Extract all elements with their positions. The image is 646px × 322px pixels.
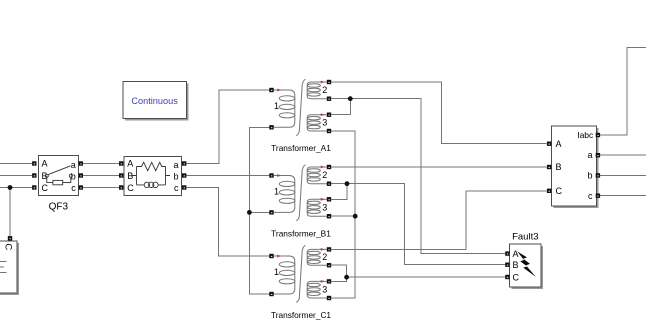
Fault3 lightning bolt (517, 251, 536, 277)
svg-text:1: 1 (274, 267, 279, 277)
svg-text:Transformer_C1: Transformer_C1 (271, 310, 331, 320)
A1 winding 3 polarity arrow (321, 113, 325, 116)
transformer C1 core slash (296, 245, 305, 302)
measurement output port b (596, 173, 600, 177)
C1 winding 3 port - (327, 296, 331, 300)
B1 winding 2 port - (327, 182, 331, 186)
wire RL b to Transformer_B1 primary+ (186, 175, 269, 177)
B1 winding 2 port + (327, 165, 331, 169)
svg-text:2: 2 (322, 85, 327, 95)
RL input port B (119, 173, 123, 177)
wire C1 center tap to Fault3 C (347, 276, 506, 278)
svg-text:a: a (173, 160, 178, 170)
QF3 input port C (32, 185, 36, 189)
svg-text:B: B (556, 162, 562, 172)
C1 primary polarity arrow (277, 255, 281, 258)
svg-text:Iabc: Iabc (577, 130, 594, 140)
A1 winding 2 polarity arrow (321, 81, 325, 84)
svg-text:A: A (127, 159, 133, 169)
wire A1 center tap to Fault3 A (331, 99, 505, 254)
wire RL a to Transformer_A1 primary+ (186, 90, 269, 164)
C1 winding 2 port + (327, 247, 331, 251)
wire A1 winding2+ to measurement A (331, 82, 546, 144)
B1 winding 3 port - (327, 214, 331, 218)
RL output port a (182, 161, 186, 165)
svg-text:b: b (173, 171, 178, 181)
wire primary neutral bus (249, 127, 269, 294)
node B1 center tap (345, 181, 350, 186)
wire B1 winding3- to common bus (331, 215, 355, 217)
A1 primary polarity arrow (277, 89, 281, 92)
wire B1 tap jog to winding3+ (331, 184, 347, 200)
Fault3 port A (505, 251, 509, 255)
C1 winding 2 polarity arrow (321, 248, 325, 251)
wire phase C into QF3 (0, 187, 32, 189)
source symbol line 3 (0, 272, 6, 274)
wire measurement b to right edge (600, 174, 646, 176)
powergui Continuous block (123, 82, 188, 121)
RL output port b (182, 173, 186, 177)
svg-text:Transformer_A1: Transformer_A1 (271, 143, 331, 153)
B1 primary port - (269, 210, 273, 214)
QF3 input port A (32, 161, 36, 165)
transformer C1 secondary winding 3 (307, 281, 327, 298)
wire B1 winding2+ to measurement B (331, 166, 546, 168)
svg-text:a: a (587, 150, 592, 160)
svg-text:c: c (174, 183, 179, 193)
wire B1 center tap to Fault3 B (331, 184, 505, 265)
svg-text:C: C (127, 183, 134, 193)
QF3 output port c (79, 185, 83, 189)
Fault3 port B (505, 263, 509, 267)
node neutral junction (247, 210, 252, 215)
measurement output port Iabc (596, 133, 600, 137)
measurement block body (552, 126, 599, 208)
transformer A1 secondary winding 2 (307, 82, 327, 99)
A1 primary port - (269, 125, 273, 129)
svg-text:C: C (513, 273, 520, 283)
C1 winding 2 port - (327, 263, 331, 267)
wire QF3 b to RL B (83, 175, 119, 177)
RL interior resistor R (132, 162, 170, 185)
transformer A1 primary winding (274, 90, 295, 127)
wire RL c to Transformer_C1 primary+ (186, 188, 269, 257)
fault block Fault3 body (510, 244, 543, 289)
source block (cut off at left edge) (0, 241, 19, 295)
measurement input port B (547, 165, 551, 169)
svg-text:C: C (3, 243, 14, 250)
svg-text:Continuous: Continuous (131, 96, 178, 106)
wire secondary common bus (A1 3- to C1 3-) (331, 131, 355, 298)
transformer B1 secondary winding 2 (307, 167, 327, 184)
wire from node C down to source block (9, 188, 11, 237)
svg-text:2: 2 (322, 252, 327, 262)
QF3 breaker switch symbol (45, 166, 72, 185)
svg-text:C: C (556, 186, 563, 196)
RL input port A (119, 161, 123, 165)
C1 primary port - (269, 292, 273, 296)
transformer A1 secondary winding 3 (307, 115, 327, 131)
svg-text:3: 3 (322, 284, 327, 294)
B1 primary port + (269, 173, 273, 177)
parallel RL branch block body (124, 157, 181, 196)
A1 winding 3 port - (327, 129, 331, 133)
svg-text:3: 3 (322, 202, 327, 212)
A1 winding 2 port - (327, 97, 331, 101)
wire C1 winding2- down to tap (331, 265, 346, 277)
wire A1 tap jog to winding3+ (331, 99, 350, 115)
wire phase A into QF3 (0, 163, 32, 165)
transformer B1 primary winding (274, 176, 295, 213)
wire phase B into QF3 (0, 175, 32, 177)
A1 winding 2 port + (327, 80, 331, 84)
transformer B1 secondary winding 3 (307, 199, 327, 216)
wire neutral to B1 primary- (249, 211, 269, 213)
transformer C1 secondary winding 2 (307, 249, 327, 265)
B1 primary polarity arrow (277, 174, 281, 177)
node C junction (8, 185, 13, 190)
svg-text:A: A (556, 139, 562, 149)
C1 winding 3 port + (327, 279, 331, 283)
wire C1 winding2+ to measurement C (331, 191, 546, 250)
svg-text:A: A (513, 249, 519, 259)
wire QF3 a to RL A (83, 163, 119, 165)
C1 primary port + (269, 254, 273, 258)
source symbol line 2 (0, 266, 4, 268)
measurement output port c (596, 194, 600, 198)
svg-text:C: C (42, 183, 49, 193)
RL input port C (119, 185, 123, 189)
svg-text:b: b (71, 171, 76, 181)
wire measurement a to right edge (600, 154, 646, 156)
node bus junction at B1 (353, 214, 358, 219)
svg-text:QF3: QF3 (49, 202, 69, 213)
wire Iabc to top right (600, 48, 646, 135)
svg-text:c: c (71, 183, 76, 193)
svg-text:Transformer_B1: Transformer_B1 (271, 229, 331, 239)
svg-text:3: 3 (322, 117, 327, 127)
svg-text:1: 1 (274, 101, 279, 111)
QF3 output port b (79, 173, 83, 177)
RL interior inductor L (137, 182, 166, 187)
transformer C1 primary winding (274, 256, 295, 294)
svg-text:b: b (587, 171, 592, 181)
node C1 center tap (344, 275, 349, 280)
svg-text:A: A (42, 159, 48, 169)
measurement input port C (547, 189, 551, 193)
svg-text:c: c (588, 191, 593, 201)
C1 winding 3 polarity arrow (321, 280, 325, 283)
transformer B1 core slash (296, 165, 305, 221)
QF3 output port a (79, 161, 83, 165)
svg-text:2: 2 (322, 170, 327, 180)
svg-text:B: B (513, 260, 519, 270)
svg-text:a: a (71, 160, 76, 170)
source block port c (top) (8, 236, 12, 240)
wire QF3 c to RL C (83, 187, 119, 189)
svg-text:1: 1 (274, 187, 279, 197)
A1 primary port + (269, 88, 273, 92)
Fault3 port C (505, 275, 509, 279)
wire C1 tap jog to winding3+ (331, 277, 346, 281)
QF3 input port B (32, 173, 36, 177)
source symbol line 1 (0, 261, 6, 263)
node A1 center tap (348, 96, 353, 101)
B1 winding 3 port + (327, 197, 331, 201)
B1 winding 3 polarity arrow (321, 198, 325, 201)
A1 winding 3 port + (327, 113, 331, 117)
svg-text:Fault3: Fault3 (512, 232, 538, 243)
measurement output port a (596, 153, 600, 157)
measurement input port A (547, 142, 551, 146)
transformer A1 core slash (296, 79, 305, 135)
breaker QF3 block body (38, 156, 78, 196)
RL output port c (182, 185, 186, 189)
wire measurement c to right edge (600, 195, 646, 197)
B1 winding 2 polarity arrow (321, 166, 325, 169)
